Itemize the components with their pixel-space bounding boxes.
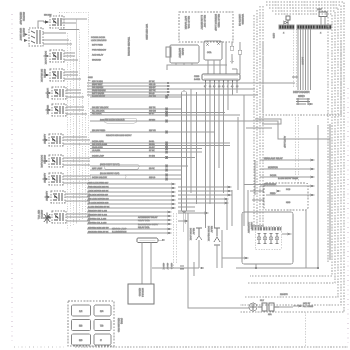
svg-text:POS: POS — [286, 188, 291, 191]
svg-text:118 TN: 118 TN — [149, 106, 156, 109]
svg-text:7/8: 7/8 — [100, 325, 104, 328]
svg-text:(ANTI-THEFT INPUT): (ANTI-THEFT INPUT) — [100, 163, 120, 166]
switch S11 key cylinder — [37, 210, 66, 224]
label outline ovals — [104, 118, 137, 123]
svg-text:C290: C290 — [194, 75, 200, 78]
svg-text:RELAY COIL: RELAY COIL — [138, 226, 150, 229]
wire row y109 — [90, 108, 182, 110]
switch S7 — [43, 134, 64, 146]
svg-text:C270: C270 — [272, 33, 275, 39]
svg-text:C: C — [100, 339, 102, 342]
svg-text:ACC DELAY: ACC DELAY — [92, 54, 104, 57]
bottom page dotted margin — [14, 346, 64, 348]
svg-text:DOOR AJAR: DOOR AJAR — [40, 155, 43, 168]
svg-text:5/6: 5/6 — [79, 325, 83, 328]
svg-text:RR LOCK MOTOR 119: RR LOCK MOTOR 119 — [88, 198, 109, 201]
svg-text:451 LB: 451 LB — [149, 83, 156, 86]
keypad buttons — [72, 305, 91, 316]
svg-text:RELAY COIL: RELAY COIL — [138, 219, 150, 222]
switch S5 — [46, 87, 67, 99]
output stack labels — [88, 182, 110, 234]
svg-text:RELAY FEED: RELAY FEED — [217, 14, 220, 28]
pin row labels — [252, 225, 264, 228]
module box M3 relay — [204, 41, 222, 60]
svg-text:HOT AT: HOT AT — [303, 302, 311, 305]
switch S4 — [44, 69, 65, 81]
spare wire — [266, 194, 311, 196]
wire row y97 — [90, 96, 182, 98]
tail wire code labels — [162, 263, 173, 270]
svg-text:20A975: 20A975 — [280, 293, 288, 296]
monitor wire — [260, 168, 311, 170]
svg-text:DOOR LOCK: DOOR LOCK — [189, 228, 192, 241]
instrument cluster connector bar — [194, 74, 240, 81]
svg-text:KEYPAD: KEYPAD — [138, 288, 141, 297]
svg-text:COIL: COIL — [207, 51, 213, 54]
svg-text:25 DB: 25 DB — [149, 143, 155, 146]
svg-text:4: 4 — [283, 32, 285, 35]
svg-text:UNLOCK: UNLOCK — [46, 105, 49, 115]
svg-text:447 RD: 447 RD — [149, 95, 156, 98]
svg-text:ILLUM GROUND 57 BK: ILLUM GROUND 57 BK — [88, 206, 110, 209]
svg-text:AJAR SW: AJAR SW — [45, 191, 48, 202]
lamp symbols — [257, 234, 279, 244]
module M2 side tab — [166, 47, 171, 57]
svg-text:DR DOOR AJAR: DR DOOR AJAR — [92, 143, 108, 146]
svg-text:RELAY: RELAY — [192, 228, 195, 235]
svg-text:DR UNLOCK: DR UNLOCK — [40, 69, 43, 82]
feed wire to module — [236, 267, 318, 269]
svg-text:KEY IN IGN: KEY IN IGN — [92, 80, 103, 83]
svg-text:KEY CYL: KEY CYL — [37, 210, 40, 220]
svg-text:MX/DIMMER: MX/DIMMER — [264, 183, 277, 186]
svg-text:296 YE: 296 YE — [149, 129, 156, 132]
svg-text:RELAY OUT: RELAY OUT — [203, 15, 206, 28]
svg-text:PWR LOCK FEED 117: PWR LOCK FEED 117 — [88, 182, 109, 185]
svg-text:ALL LOCK: ALL LOCK — [92, 112, 102, 115]
top pin row — [252, 228, 281, 231]
svg-text:AJAR SW: AJAR SW — [43, 173, 46, 184]
fuse block symbols — [258, 303, 279, 311]
svg-text:118 GY: 118 GY — [149, 86, 156, 89]
headlamp relay wire — [260, 159, 311, 161]
wire labels upper (left of connector) — [91, 36, 132, 179]
svg-text:4: 4 — [320, 32, 322, 35]
driver door module box — [128, 284, 154, 304]
wire gauge-colour codes — [149, 80, 156, 179]
svg-text:MODULE: MODULE — [141, 288, 144, 298]
svg-text:DOOR: DOOR — [270, 174, 277, 177]
wire S1 to S2 — [38, 21, 44, 28]
defogger step wires — [246, 119, 281, 128]
wire row y143 — [90, 142, 230, 144]
svg-text:PASS AJAR: PASS AJAR — [92, 146, 103, 149]
svg-text:HEADLAMP: HEADLAMP — [19, 12, 22, 25]
svg-text:KEYPAD LAMP: KEYPAD LAMP — [112, 228, 127, 231]
svg-text:UNLOCK MOTOR 117: UNLOCK MOTOR 117 — [88, 194, 109, 197]
svg-text:DR KEY UNLOCK: DR KEY UNLOCK — [92, 106, 109, 109]
svg-text:27 BK: 27 BK — [149, 149, 155, 152]
svg-text:14: 14 — [218, 85, 221, 88]
svg-text:9/0: 9/0 — [79, 339, 83, 342]
svg-text:DR DISARM: DR DISARM — [92, 86, 104, 89]
wire row y115 — [90, 114, 240, 116]
cluster pin labels — [204, 85, 239, 88]
svg-text:LAMPS: LAMPS — [250, 222, 253, 229]
svg-text:SWITCH: SWITCH — [43, 155, 46, 164]
svg-text:C237: C237 — [317, 8, 323, 11]
svg-text:KEYLESS PAD: KEYLESS PAD — [117, 318, 120, 333]
switch S1 driver lock — [44, 16, 65, 28]
fuse symbol top right — [284, 16, 290, 25]
svg-text:S206: S206 — [88, 76, 94, 79]
defogger feed pair upper — [294, 29, 297, 88]
svg-text:AJAR SW: AJAR SW — [43, 134, 46, 145]
harness bundle from P2 — [298, 29, 311, 90]
svg-text:MEMORY SET 2 484: MEMORY SET 2 484 — [88, 214, 108, 217]
wires bottom right — [249, 306, 293, 308]
svg-text:BATTERY: BATTERY — [178, 48, 181, 58]
svg-text:KEYPAD COL B 486: KEYPAD COL B 486 — [88, 222, 107, 225]
feeds M1 to cluster bar — [176, 42, 242, 74]
svg-text:95 WH: 95 WH — [149, 119, 156, 122]
svg-text:SWITCH: SWITCH — [43, 69, 46, 78]
connector row P3 — [316, 25, 331, 35]
svg-text:ACCESSORY DELAY: ACCESSORY DELAY — [138, 216, 158, 219]
svg-text:53 PK: 53 PK — [149, 167, 155, 170]
module box M1 (dashed) — [179, 12, 233, 42]
wire row y93 — [87, 91, 170, 93]
junction dots upper rows — [167, 82, 169, 96]
svg-text:FEED: FEED — [270, 192, 276, 195]
svg-text:ILLUMINATION: ILLUMINATION — [112, 231, 127, 234]
svg-text:AUTOLAMP: AUTOLAMP — [283, 136, 286, 149]
svg-text:POWER DOOR: POWER DOOR — [91, 36, 106, 39]
svg-text:25: 25 — [236, 85, 239, 88]
svg-text:ILLUMINATED ENTRY: ILLUMINATED ENTRY — [138, 223, 159, 226]
svg-text:14401: 14401 — [194, 78, 201, 81]
svg-text:26 GY: 26 GY — [149, 146, 155, 149]
wire row y121 — [90, 121, 330, 139]
svg-text:14A005: 14A005 — [301, 57, 304, 65]
wire row y90 — [87, 88, 255, 90]
svg-text:LR AJAR: LR AJAR — [92, 149, 101, 152]
svg-text:GROUND: GROUND — [92, 59, 101, 62]
svg-text:ALL TIMES: ALL TIMES — [303, 305, 314, 308]
svg-text:MAP LAMP: MAP LAMP — [92, 167, 103, 170]
left harness channel verticals — [59, 12, 88, 229]
svg-text:116 LB: 116 LB — [149, 176, 156, 179]
defogger region box — [263, 42, 341, 115]
dimmer wire — [260, 185, 311, 187]
arrows into relays — [185, 212, 208, 222]
centre connector pin marks — [166, 96, 168, 180]
svg-text:LIGHTS ON: LIGHTS ON — [238, 14, 241, 26]
relay K2 — [207, 226, 220, 268]
wire row y148.5 — [90, 148, 202, 150]
wire row y87 — [87, 85, 170, 87]
switch S9 — [43, 173, 64, 185]
svg-text:REMOTE KEYLESS ENTRY: REMOTE KEYLESS ENTRY — [106, 134, 132, 137]
svg-text:117 PK: 117 PK — [149, 89, 156, 92]
wire stubs from switches to channel — [43, 19, 90, 221]
svg-text:LR LOCK MOTOR 120: LR LOCK MOTOR 120 — [88, 202, 109, 205]
svg-text:BATT SAVER: BATT SAVER — [184, 16, 187, 30]
svg-text:57 BK: 57 BK — [149, 80, 155, 83]
svg-text:MONITOR: MONITOR — [268, 166, 278, 169]
wire row y175 — [90, 174, 182, 176]
svg-text:3/4: 3/4 — [100, 310, 104, 313]
svg-text:24 BL: 24 BL — [149, 140, 155, 143]
cluster feed rail — [167, 65, 227, 70]
svg-text:98 VT: 98 VT — [149, 112, 155, 115]
module box M2 battery saver relay — [170, 45, 199, 63]
svg-text:RELAY COIL: RELAY COIL — [187, 16, 190, 29]
svg-text:DOME LAMP: DOME LAMP — [92, 155, 105, 158]
switch S8 — [43, 155, 64, 167]
junction dots — [255, 267, 257, 269]
right page dotted margin — [347, 88, 349, 344]
battery splice circle — [249, 303, 257, 311]
svg-text:KEYPAD COL A 485: KEYPAD COL A 485 — [88, 218, 107, 221]
svg-text:NEG: NEG — [286, 201, 291, 204]
svg-text:SWITCH: SWITCH — [22, 12, 25, 21]
svg-text:(ASM): (ASM) — [120, 318, 123, 324]
svg-text:15A: 15A — [268, 313, 272, 316]
splice marks — [88, 76, 94, 81]
svg-text:GROUND G201 57 BK: GROUND G201 57 BK — [88, 231, 109, 234]
module feed drop — [305, 210, 307, 268]
svg-text:31: 31 — [209, 85, 212, 88]
stack side note — [138, 216, 159, 229]
svg-text:SEAT BELT: SEAT BELT — [92, 83, 103, 86]
wire row y179 — [90, 178, 182, 180]
switch S10 — [45, 191, 66, 203]
svg-text:COURTESY: COURTESY — [247, 222, 250, 234]
svg-text:GRID: GRID — [298, 95, 305, 98]
connector tail drops — [184, 212, 186, 232]
svg-text:WARNING: WARNING — [241, 14, 244, 25]
wire row y152 — [90, 151, 202, 153]
svg-text:MAIN LIGHT: MAIN LIGHT — [19, 28, 22, 41]
ground drop dashed — [304, 312, 306, 346]
svg-text:DOOR UNLOCK: DOOR UNLOCK — [207, 226, 210, 242]
connector row P2 — [297, 25, 320, 29]
svg-text:ILLUM ENTRY: ILLUM ENTRY — [92, 95, 106, 98]
svg-text:LOCK CIRCUITS: LOCK CIRCUITS — [91, 39, 107, 42]
svg-text:HEADLAMP RELAY: HEADLAMP RELAY — [264, 157, 283, 160]
connector tail pair — [174, 213, 177, 268]
relay feed rows — [178, 187, 228, 211]
svg-text:484 GY: 484 GY — [166, 263, 169, 270]
svg-text:W/O KEYLESS: W/O KEYLESS — [145, 24, 148, 40]
defogger grid symbol — [296, 98, 310, 105]
switch S2 multifunction — [19, 28, 43, 46]
svg-text:PWR UNLOCK 116 PK: PWR UNLOCK 116 PK — [88, 186, 109, 189]
svg-text:(DRIVER DOOR MODULE): (DRIVER DOOR MODULE) — [100, 119, 125, 122]
svg-text:RELAY: RELAY — [210, 226, 213, 233]
connector row P1 — [279, 25, 294, 35]
wire row y132 — [90, 131, 215, 133]
centre door module connector body — [182, 91, 187, 212]
defogger feed pair — [295, 117, 298, 183]
battery arrow — [293, 305, 302, 307]
svg-text:TRACES SHOWN: TRACES SHOWN — [127, 37, 130, 56]
output stack arrowheads — [168, 183, 175, 234]
riser from DDM — [188, 213, 249, 308]
keypad illumination bar — [112, 228, 165, 285]
svg-text:485 LB: 485 LB — [170, 263, 173, 270]
inner dashed block — [255, 226, 281, 249]
wire row y96 — [87, 94, 255, 96]
svg-text:KEYPAD ROW 487 GY: KEYPAD ROW 487 GY — [88, 227, 109, 230]
module outline — [242, 212, 293, 264]
door wire — [260, 176, 311, 178]
connector CA above — [317, 8, 327, 25]
wire row y166 — [90, 165, 188, 167]
left page dotted margin border — [11, 14, 13, 345]
svg-text:SWITCH: SWITCH — [40, 210, 43, 219]
svg-text:ILLUM ENTRY TIMER: ILLUM ENTRY TIMER — [278, 177, 298, 180]
svg-text:SAVER: SAVER — [181, 48, 184, 56]
svg-text:483 PK: 483 PK — [162, 263, 165, 270]
cluster pins — [206, 80, 238, 84]
svg-text:F2.7: F2.7 — [260, 299, 265, 302]
svg-text:MEMORY SET 1 483: MEMORY SET 1 483 — [88, 210, 108, 213]
wire row y170 — [90, 169, 182, 171]
svg-text:DOOR AJAR: DOOR AJAR — [92, 140, 104, 143]
svg-text:PWR WINDOW: PWR WINDOW — [92, 49, 106, 52]
wire row y83 — [87, 82, 295, 84]
svg-text:BATT FEED: BATT FEED — [92, 44, 103, 47]
svg-text:IGN SW: IGN SW — [44, 14, 51, 17]
svg-text:DEFOGGER: DEFOGGER — [293, 90, 310, 94]
switch S6 — [46, 104, 67, 116]
wire row y112.5 — [90, 112, 225, 114]
module internal feed arrow — [222, 257, 245, 259]
relay K1 — [189, 228, 202, 268]
svg-text:LOCK MOTOR 118 BK: LOCK MOTOR 118 BK — [88, 190, 109, 193]
wire row y157.5 — [90, 157, 195, 159]
svg-text:INTERIOR LAMP: INTERIOR LAMP — [214, 14, 217, 32]
svg-text:ILLUM ENTRY: ILLUM ENTRY — [200, 15, 203, 30]
svg-text:1/2: 1/2 — [79, 310, 83, 313]
svg-text:LOCK SW: LOCK SW — [46, 88, 49, 99]
svg-text:DOOR UNLOCK: DOOR UNLOCK — [92, 176, 108, 179]
switch S3 — [44, 50, 65, 62]
out arrow — [282, 233, 291, 235]
svg-text:54 GN: 54 GN — [149, 155, 155, 158]
wire row y145.5 — [90, 145, 230, 147]
svg-text:SWITCH: SWITCH — [22, 28, 25, 37]
svg-text:IGN SW FEED: IGN SW FEED — [92, 129, 106, 132]
svg-text:PASS DISARM: PASS DISARM — [92, 89, 106, 92]
svg-text:DOOR LOCK: DOOR LOCK — [44, 51, 47, 65]
